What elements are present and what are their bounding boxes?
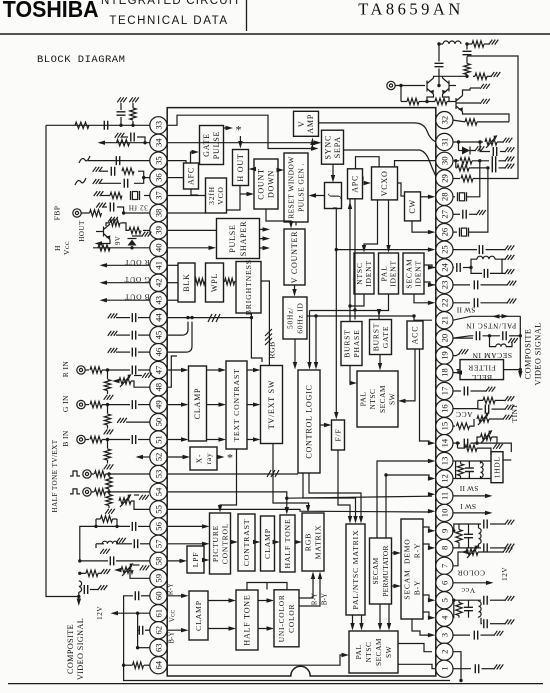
wire [438,44,440,62]
crystal [460,228,469,237]
arrow trunk down [518,371,522,379]
svg-text:CLAMP: CLAMP [194,600,203,631]
svg-text:64: 64 [153,660,163,669]
svg-text:TECHNICAL DATA: TECHNICAL DATA [109,15,228,27]
wire pin12 external [453,478,456,480]
arrow into pin 18 [455,370,463,374]
arrow out [263,236,271,240]
wire pin27 external [453,213,460,215]
wire pin34 to SYNC SEPA [167,142,318,144]
arrow into pin 14 [428,441,436,445]
svg-text:20: 20 [439,334,449,343]
pin 49 [150,396,167,413]
transistor Q1 [427,78,434,94]
svg-text:SECAMIDENT: SECAMIDENT [405,258,423,288]
wire SYNC SEPA to pin29 riser [344,149,420,151]
junction [136,646,139,649]
terminal pin53 [83,470,91,478]
svg-text:B OUT: B OUT [124,293,150,302]
arrow into bottom SW [359,623,363,631]
pin 15 [436,418,453,435]
svg-text:HALF TONE: HALF TONE [283,518,292,568]
wire [468,461,470,468]
ground pin4 [505,619,515,624]
resistor pin32 [465,119,477,125]
wire pin33 external [46,124,150,126]
wire ACC riser to pin 14 [420,349,433,443]
wire [107,425,109,429]
arrow into CONTROL LOGIC [314,362,318,370]
ground pin8 [505,544,515,549]
wire [100,182,121,184]
svg-text:31: 31 [439,138,449,147]
junction [519,334,522,337]
arrow into HALF TONE [273,540,281,544]
arrow out [263,227,271,231]
ground top [489,40,499,45]
svg-text:23: 23 [439,281,449,290]
capacitor [134,539,137,548]
svg-text:CLAMP: CLAMP [193,388,202,420]
inductor 4-5 [479,601,482,617]
terminal R IN [77,366,85,374]
wire pin42 to BLK [167,282,178,284]
wire PICTURE CONTROL to CONTRAST [231,541,235,543]
junction [186,316,189,319]
arrow B OUT [100,298,108,302]
junction [285,497,288,500]
ground [101,569,111,574]
svg-text:LPF: LPF [191,552,200,568]
wire [453,336,473,338]
junction [77,595,80,598]
wire RESET WINDOW to V COUNTER [295,222,297,226]
block BELL FILTER (external) [460,360,504,380]
wire [456,167,457,169]
block integrator [325,183,342,209]
junction [475,441,478,444]
arrow into SYNC SEPA [311,146,319,150]
wire pin38 external [124,212,150,214]
wire pin6 external [453,582,490,584]
ground pot 55 [139,495,149,500]
resistor pin16 [483,397,495,403]
pin 24 [436,259,453,276]
svg-text:1HDL: 1HDL [493,456,502,478]
svg-text:48: 48 [153,383,163,392]
wire SECAM PERMUTATOR to bottom SW [388,604,390,628]
wire SECAM DEMO to pin 5 [423,595,432,600]
svg-text:24: 24 [439,263,449,272]
wire pin17 external [453,390,461,392]
svg-text:21: 21 [439,316,449,325]
wire [92,491,95,493]
ground color [503,548,513,553]
junction [311,147,314,150]
svg-text:VIDEO SIGNAL: VIDEO SIGNAL [534,322,543,385]
junction [425,100,428,103]
resistor pin33 [75,122,89,128]
wire SECAM IDENT to pin 24 [424,265,435,268]
svg-text:17: 17 [439,386,449,395]
wire to pin18 [457,369,461,371]
svg-text:7: 7 [439,563,449,568]
arrow into bottom SW [342,653,350,657]
junction [122,664,125,667]
wire asterisk to H OUT [239,136,241,146]
ground pin33 a [117,97,127,102]
svg-text:41: 41 [153,261,163,270]
junction [190,316,193,319]
wire [477,448,491,455]
pin 13 [436,452,453,469]
arrow into HALF TONE [229,626,237,630]
junction [122,211,125,214]
svg-text:16: 16 [439,404,449,413]
svg-text:6: 6 [439,580,449,585]
svg-text:61: 61 [153,609,163,618]
junction [465,42,468,45]
wire into CONTROL LOGIC top 2 [315,316,317,367]
svg-text:CONTRAST: CONTRAST [242,519,251,567]
svg-text:BRIGHTNESS: BRIGHTNESS [244,259,253,315]
svg-text:SYNCSEPA: SYNCSEPA [324,135,343,160]
svg-text:GATEPULSE: GATEPULSE [202,131,221,159]
wire 50-60Hz to CONTROL LOGIC [294,339,296,367]
wire APC to VCXO link [362,177,364,181]
ground tank 20 [508,338,518,343]
wire pin42 out [103,282,150,284]
wire [427,101,435,103]
wire [116,519,118,526]
wire [456,102,480,104]
wire [458,142,460,151]
capacitor [474,298,477,307]
wire 1HDL right [503,459,511,461]
wire [460,476,462,479]
arrow into H OUT top [238,141,242,149]
arrow into pin 12 [428,476,436,480]
arrow into PICTURE CONTROL [202,558,210,562]
wire [478,551,503,553]
wire pin21 composite [453,316,520,320]
svg-text:2: 2 [439,650,449,654]
wire [477,437,481,443]
wire bottom SW to pin 2 [398,644,432,652]
wire top link HALF TONE UNI-COLOR [247,583,287,591]
wire branch [266,583,268,590]
arrow into HALF TONE top [285,507,289,515]
junction [452,599,455,602]
wire [478,524,480,528]
wire [473,75,475,77]
wire curve into pin 29 [420,150,436,176]
ground pin22 [507,299,517,304]
wire pin30 external [453,160,459,162]
block BLK [178,263,195,302]
arrow into pin 3 [428,633,436,637]
wire pin43 to BLK [167,299,178,301]
capacitor [484,619,487,628]
wire CLAMP to HALF TONE [209,628,233,630]
wire pins44-46 bundle to TV-EXT SW [167,318,262,362]
wire pin37 to VCO [167,195,205,197]
capacitor [124,179,127,188]
svg-text:55: 55 [153,505,163,514]
ground pin16 b [505,405,515,410]
block ACC [407,321,423,349]
wire crystal riser [467,161,480,197]
arrow into CLAMP [181,402,189,406]
capacitor [457,263,460,272]
svg-text:8: 8 [439,546,449,550]
junction [106,403,109,406]
wire HALF TONE to UNI-COLOR [259,628,271,630]
svg-text:TINT: TINT [510,404,519,423]
wire pin3 external [453,634,470,636]
wire [102,439,130,441]
arrow right [502,314,510,318]
wire CLAMP to TEXT CONTRAST [207,404,223,406]
wire [107,405,109,414]
arrow into PICTURE CONTROL [202,542,210,546]
wire CLAMP to HALF TONE [275,541,277,543]
wire [100,170,108,172]
capacitor [493,147,496,156]
tank circuit pin20 [490,336,513,347]
arrow into TEXT CONTRAST [219,402,227,406]
svg-text:CONTROL LOGIC: CONTROL LOGIC [305,384,314,458]
arrow into SECAM DEMO [394,584,402,588]
wire ACC to SW [402,349,416,401]
svg-text:37: 37 [153,191,163,200]
arrow into bottom SW [350,623,354,631]
ground [104,429,114,434]
wire pin60 external [141,595,150,597]
wire BURST GATE to APC riser [354,199,356,320]
crystal [131,191,140,200]
wire [195,281,196,283]
junction [478,140,481,143]
wire VCXO to NTSC IDENT [364,200,378,250]
block SECAM DEMO [401,519,423,619]
hash mark on pin53 wire [267,470,279,477]
svg-text:32 fH: 32 fH [128,204,148,212]
block NTSC IDENT [354,253,374,294]
wire [490,547,505,549]
capacitor [463,51,472,54]
wire [502,258,505,260]
junction [353,308,356,311]
svg-text:ACC: ACC [411,326,420,345]
wire 50-60Hz ID to pin 21 [307,316,432,320]
wire PERMUTATOR to SECAM DEMO [392,552,398,554]
svg-text:UNI-COLORCOLOR: UNI-COLORCOLOR [277,594,296,642]
wire [224,281,225,283]
resistor row B [457,165,469,171]
wire row 12 [456,478,491,480]
inductor tank [477,256,495,259]
svg-text:INTEGRATED CIRCUIT: INTEGRATED CIRCUIT [97,0,242,7]
svg-text:29: 29 [439,174,449,183]
ground pin5 [505,596,515,601]
wire [481,284,508,286]
wire AFC to GATE PULSE [191,152,197,163]
pin 62 [150,622,167,639]
svg-text:50: 50 [153,418,163,427]
wire [102,369,130,371]
wire pot to pin59 [130,570,150,578]
capacitor [474,280,477,289]
arrow into pin 24 [428,265,436,269]
svg-text:12: 12 [439,474,449,483]
wire pin64 to bottom SW [167,655,346,665]
junction [142,176,145,179]
resistor pin34 [117,140,130,146]
block PAL NTSC SECAM SW (bottom) [349,631,398,673]
arrow into RGB MATRIX [306,505,310,513]
ground pin36 top [93,167,103,172]
wire pin35 to AFC [167,161,186,163]
wire PERMUTATOR to SECAM DEMO 2 [392,585,398,587]
junction [106,438,109,441]
pin 31 [436,133,453,150]
wire collectors [434,76,468,78]
wire pin13 external [453,460,456,462]
wire pin7 external [453,552,464,566]
wire [468,524,470,534]
ground pin46 [108,348,118,353]
wire [138,439,150,441]
wire pin26 external [453,231,457,233]
wire pin5 external [453,599,481,601]
arrow into TV-EXT SW [253,368,261,372]
junction [478,159,481,162]
pin 60 [150,587,167,604]
wire pin15 external [453,425,455,427]
wire pin32 external [453,120,465,122]
capacitor [111,167,114,176]
junction [465,75,468,78]
svg-text:51: 51 [153,435,163,444]
wire [480,142,490,152]
capacitor [476,331,479,340]
junction [384,473,387,476]
wire TEXT CONTRAST to TV-EXT SW [247,404,257,406]
wire [439,43,443,45]
arrow SW II [485,494,493,498]
wire [137,137,145,143]
ground pin34 [115,133,125,138]
junction [437,42,440,45]
resistor pin37 [110,192,122,198]
wire [82,212,90,214]
svg-text:5: 5 [439,598,449,602]
wire pin45 merge [167,322,188,336]
wire [137,613,139,648]
svg-text:NTSCIDENT: NTSCIDENT [355,260,373,287]
terminal pin54 [83,488,91,496]
ground 1HDL [493,444,503,449]
transistor Q3 [456,96,463,112]
capacitor [503,331,506,340]
pin 19 [436,347,453,364]
wire [116,334,130,336]
svg-text:SW I: SW I [460,502,476,511]
svg-text:APC: APC [351,175,360,193]
wire VCXO to PAL IDENT [388,200,390,250]
arrow into PICTURE CONTROL [202,524,210,528]
wire pin29 external [453,178,460,180]
block COUNT DOWN [254,159,278,209]
wire COUNT DOWN to H OUT [251,168,254,170]
capacitor [484,543,487,552]
wire [133,564,140,566]
svg-text:HALF TONE: HALF TONE [243,594,252,645]
svg-text:33: 33 [153,121,163,130]
resistor 4-5 [456,603,462,616]
svg-text:56: 56 [153,521,163,530]
wire pin57 external [140,543,150,545]
resistor below 54 [106,495,112,506]
block 1HDL (external) [491,452,503,483]
wire pin39 to PULSE SHAPER [167,229,216,231]
resistor pin56 [101,516,113,522]
wire pin2 loop [453,652,461,681]
pin 45 [150,327,167,344]
ground pin45 [108,331,118,336]
resistor input G IN [90,401,102,407]
wire [481,634,495,636]
ground pot 59 [140,565,150,570]
svg-text:52: 52 [153,453,163,462]
ground tank b [505,269,515,274]
wire pin row to CLAMP [167,439,185,441]
svg-text:TOSHIBA: TOSHIBA [3,0,99,22]
wire pin20 external [453,337,473,339]
junction [131,124,134,127]
junction [106,368,109,371]
wire [442,76,444,78]
wire cap to base [438,69,440,86]
wire [131,246,133,248]
svg-text:*: * [227,451,233,465]
svg-text:32fHVCO: 32fHVCO [207,186,225,205]
pin 39 [150,222,167,239]
wire pin56 external [138,525,150,527]
wire [124,664,133,666]
wire [234,281,236,283]
junction [335,248,338,251]
svg-text:9V: 9V [115,236,122,245]
arrow into SW [350,381,358,385]
wire pin37 external [144,195,150,197]
junction [107,490,110,493]
wire [470,87,480,89]
arrow into UNI-COLOR [267,626,275,630]
wire [473,178,479,180]
wire [484,43,489,45]
wire [120,117,122,125]
wire pin62 external [145,629,150,631]
wire pin60 to CLAMP [167,595,185,597]
arrow into TV-EXT SW [253,402,261,406]
wire [455,161,457,168]
wire [458,600,460,602]
pin 42 [150,274,167,291]
svg-text:45: 45 [153,331,163,340]
wire [468,476,470,479]
